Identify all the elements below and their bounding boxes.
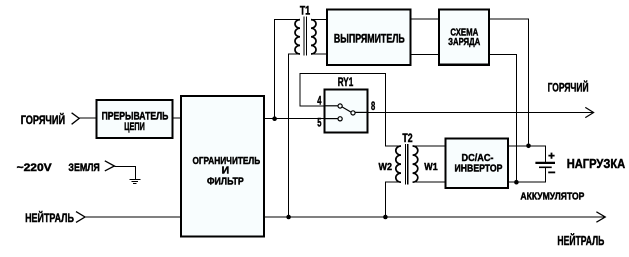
T1 core (304, 16, 306, 55)
T2 winding W1 (413, 146, 418, 182)
svg-text:W1: W1 (424, 161, 438, 173)
T1 secondary winding (311, 20, 316, 54)
hot output arrowhead (585, 107, 593, 117)
svg-text:НАГРУЗКА: НАГРУЗКА (567, 156, 626, 171)
wire hot rail filter to relay pin5 (264, 118, 326, 120)
svg-text:4: 4 (317, 95, 322, 108)
svg-text:8: 8 (371, 100, 376, 113)
battery minus sign (548, 171, 555, 173)
transformer T2 (379, 133, 438, 185)
wire rectifier to charger bottom (411, 54, 440, 56)
svg-text:ВЫПРЯМИТЕЛЬ: ВЫПРЯМИТЕЛЬ (334, 32, 405, 46)
wire breaker to filter (173, 117, 182, 119)
svg-text:ФИЛЬТР: ФИЛЬТР (207, 176, 244, 188)
battery plus sign (548, 153, 554, 159)
relay contact circle pin 5 (338, 117, 342, 121)
svg-text:ЦЕПИ: ЦЕПИ (124, 121, 145, 133)
wire relay pin8 hot output (368, 111, 594, 113)
T2 core (406, 144, 408, 185)
svg-text:ГОРЯЧИЙ: ГОРЯЧИЙ (548, 80, 589, 95)
wire W1 bottom to inverter (413, 181, 446, 183)
transformer T1 (295, 5, 316, 55)
wire inverter plus output to battery (508, 146, 545, 162)
relay pin 8 stub (355, 111, 368, 113)
relay pin 5 stub (325, 118, 338, 120)
svg-text:ИНВЕРТОР: ИНВЕРТОР (455, 163, 503, 174)
wire T1 primary return to neutral (289, 54, 300, 217)
svg-text:RY1: RY1 (338, 77, 354, 89)
ground chevron (105, 161, 115, 171)
wire rectifier to charger top (411, 18, 440, 20)
svg-text:T2: T2 (402, 133, 412, 145)
T1 primary winding (295, 20, 300, 54)
filter block ОГРАНИЧИТЕЛЬ И ФИЛЬТР (181, 96, 264, 236)
ground bars (129, 179, 140, 181)
node battery minus junction (514, 180, 519, 185)
wire T1 primary riser from hot node up to winding top (275, 20, 300, 119)
svg-text:НЕЙТРАЛЬ: НЕЙТРАЛЬ (557, 233, 604, 248)
wire W1 top to inverter (413, 145, 446, 147)
inverter block DC/AC-ИНВЕРТОР (446, 139, 509, 189)
svg-text:ЗЕМЛЯ: ЗЕМЛЯ (68, 162, 99, 174)
svg-text:НЕЙТРАЛЬ: НЕЙТРАЛЬ (25, 212, 74, 225)
relay switch arm (342, 107, 351, 112)
wire hot input to breaker (79, 117, 97, 119)
neutral input chevron (76, 212, 85, 223)
svg-text:ГОРЯЧИЙ: ГОРЯЧИЙ (21, 114, 65, 127)
breaker block ПРЕРЫВАТЕЛЬ ЦЕПИ (97, 100, 173, 138)
charger block СХЕМА ЗАРЯДА (439, 10, 489, 65)
svg-text:5: 5 (317, 116, 322, 129)
wire T1 secondary top to rectifier (311, 19, 328, 21)
wire W2 bottom return to neutral (385, 182, 401, 217)
wire charger top output down to battery plus node (489, 19, 529, 146)
wire T1 secondary bottom to rectifier (311, 53, 328, 55)
svg-text:ЗАРЯДА: ЗАРЯДА (448, 36, 480, 48)
node battery plus junction (526, 144, 531, 149)
neutral output arrowhead (596, 212, 605, 222)
wire neutral rail (85, 216, 604, 218)
svg-text:W2: W2 (379, 161, 393, 173)
wire inverter minus output to battery (508, 168, 545, 182)
ground symbol (105, 161, 141, 184)
node hot junction at filter output (272, 116, 277, 121)
wire relay pin4 loop to W2 top (300, 73, 401, 146)
battery АККУМУЛЯТОР (535, 153, 555, 173)
battery bottom plate (539, 166, 552, 168)
battery top plate (535, 162, 555, 164)
relay common contact circle pin 8 (351, 111, 355, 115)
node T1 return on neutral (286, 215, 291, 220)
relay RY1 (317, 77, 375, 133)
wire charger bottom output down to battery minus node (489, 55, 516, 183)
relay contact circle pin 4 (338, 104, 342, 108)
svg-text:~220V: ~220V (17, 162, 53, 174)
rectifier block ВЫПРЯМИТЕЛЬ (327, 10, 411, 66)
node W2 return on neutral (383, 215, 388, 220)
hot input chevron (72, 113, 80, 125)
svg-text:T1: T1 (300, 5, 311, 17)
relay pin 4 stub (325, 105, 338, 107)
T2 winding W2 (396, 146, 401, 182)
svg-text:АККУМУЛЯТОР: АККУМУЛЯТОР (520, 191, 584, 202)
ground wire (115, 167, 136, 180)
